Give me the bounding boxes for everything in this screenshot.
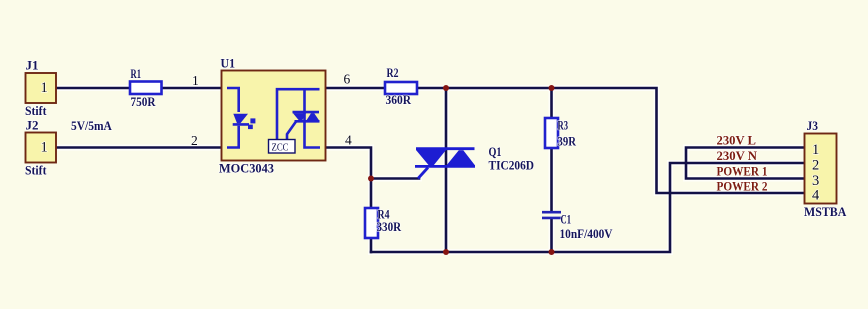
svg-text:MSTBA: MSTBA	[804, 204, 847, 219]
svg-text:4: 4	[812, 188, 820, 204]
svg-text:2: 2	[191, 133, 198, 148]
svg-text:6: 6	[344, 72, 351, 87]
svg-text:230V N: 230V N	[717, 148, 758, 163]
svg-text:Stift: Stift	[25, 103, 47, 118]
svg-text:C1: C1	[561, 212, 572, 227]
svg-text:TIC206D: TIC206D	[489, 157, 535, 172]
svg-text:230V L: 230V L	[717, 132, 757, 147]
svg-text:Stift: Stift	[25, 163, 47, 178]
svg-text:POWER 1: POWER 1	[717, 164, 768, 179]
svg-text:1: 1	[812, 142, 819, 158]
svg-text:POWER 2: POWER 2	[717, 178, 768, 193]
svg-text:10nF/400V: 10nF/400V	[560, 226, 614, 241]
svg-text:J2: J2	[26, 118, 39, 133]
svg-text:4: 4	[345, 133, 352, 148]
svg-text:1: 1	[192, 73, 199, 88]
svg-text:J1: J1	[26, 58, 39, 73]
svg-text:J3: J3	[807, 118, 819, 133]
svg-text:R1: R1	[131, 66, 142, 81]
svg-text:ZCC: ZCC	[272, 143, 289, 154]
svg-text:MOC3043: MOC3043	[219, 160, 274, 175]
svg-text:1: 1	[41, 140, 48, 156]
svg-text:R3: R3	[558, 117, 569, 132]
svg-text:U1: U1	[221, 56, 236, 71]
svg-text:360R: 360R	[386, 92, 412, 107]
svg-text:39R: 39R	[558, 133, 577, 148]
svg-text:2: 2	[812, 158, 819, 174]
svg-text:5V/5mA: 5V/5mA	[71, 118, 112, 133]
svg-text:R2: R2	[387, 65, 399, 80]
svg-text:750R: 750R	[131, 94, 157, 109]
svg-text:330R: 330R	[377, 219, 402, 234]
svg-text:1: 1	[41, 80, 48, 96]
